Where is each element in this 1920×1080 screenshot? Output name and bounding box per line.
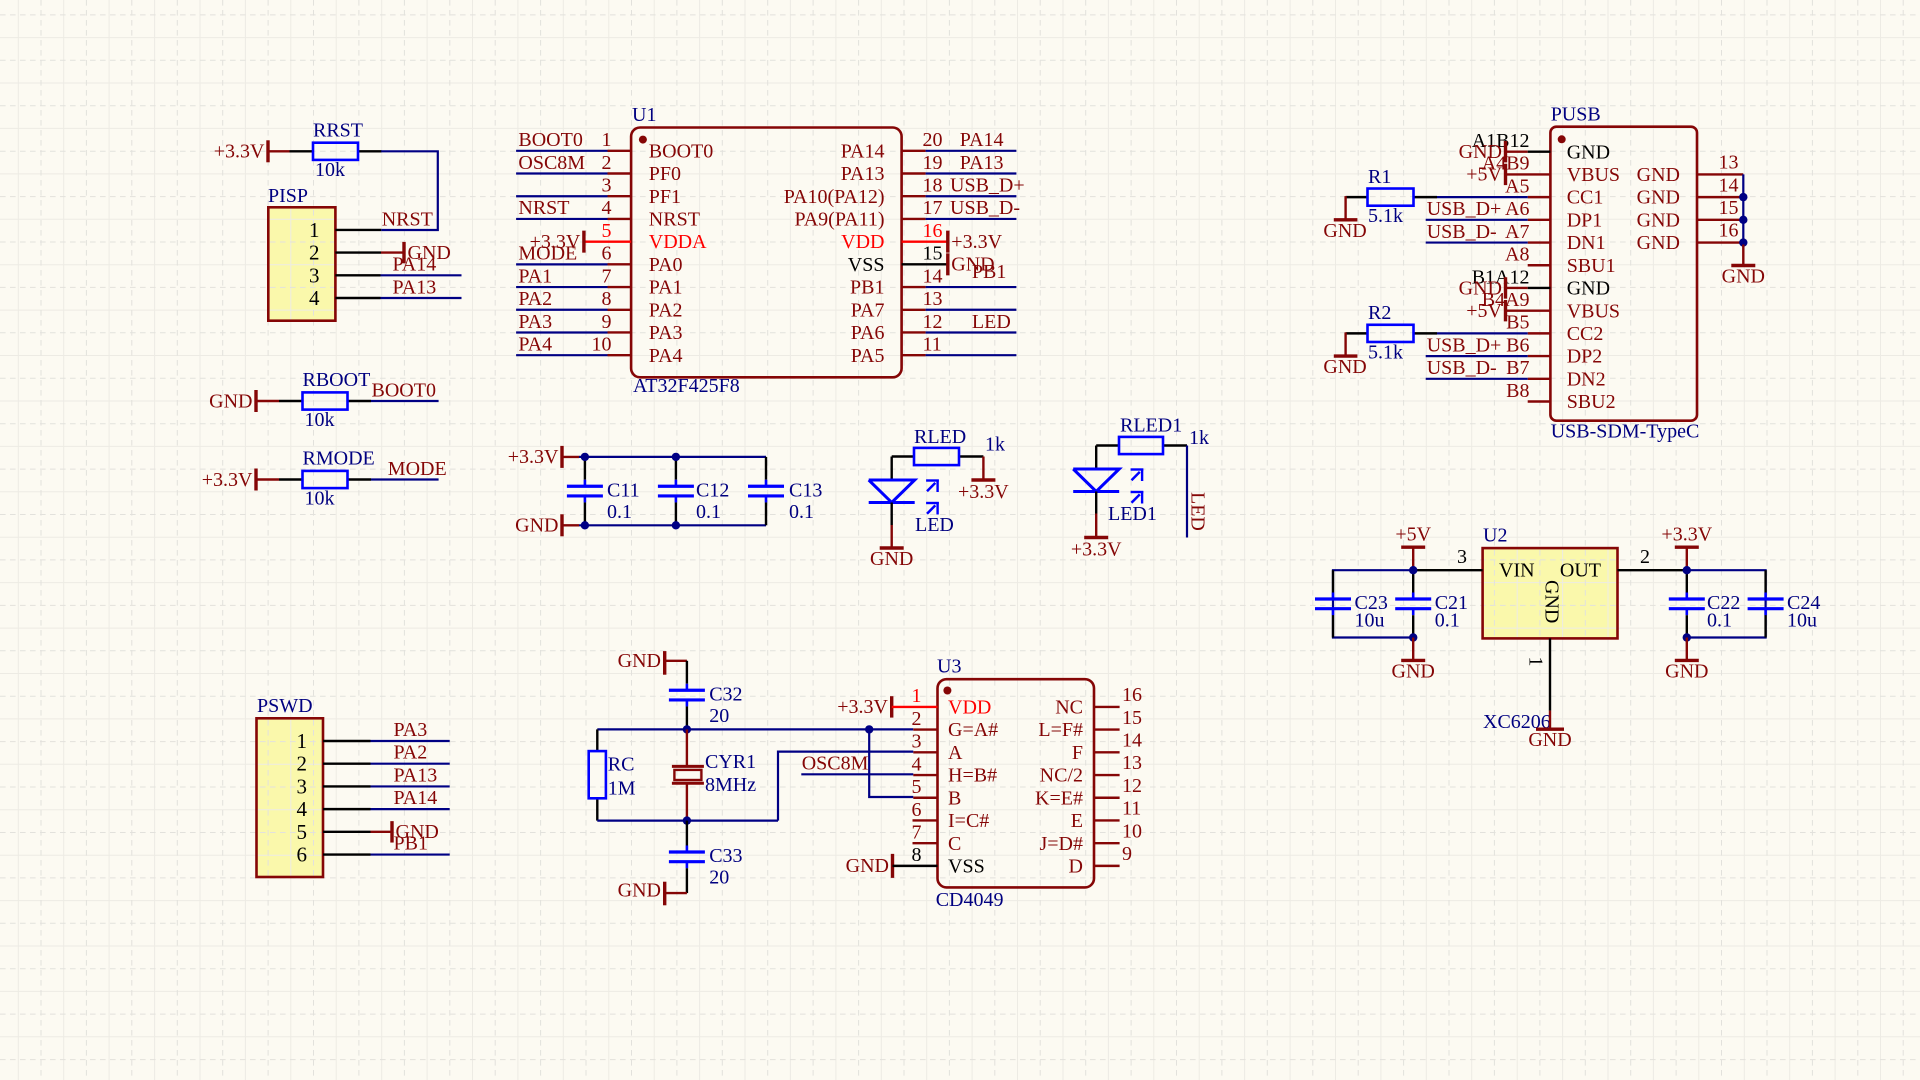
wire at U1 pin 13 [926, 309, 1017, 311]
svg-text:BOOT0: BOOT0 [649, 140, 713, 162]
connector PSWD [257, 695, 324, 877]
svg-text:4: 4 [297, 797, 308, 821]
svg-text:PA1: PA1 [649, 277, 683, 299]
U3 left pin names [948, 697, 998, 878]
svg-text:PB1: PB1 [972, 261, 1006, 283]
svg-text:MODE: MODE [518, 243, 577, 265]
svg-text:18: 18 [923, 175, 943, 197]
svg-text:1k: 1k [1189, 427, 1209, 449]
svg-text:B7: B7 [1506, 357, 1529, 379]
svg-text:1: 1 [309, 218, 320, 242]
wire at U1 pin 3 [516, 195, 607, 197]
wire OSC8M net (U3 pin4) [801, 773, 913, 775]
power +5V at PUSB pin B4A9 [1466, 300, 1505, 322]
svg-text:0.1: 0.1 [696, 501, 721, 523]
svg-text:20: 20 [923, 129, 943, 151]
svg-text:B5: B5 [1506, 312, 1529, 334]
svg-text:PSWD: PSWD [257, 695, 313, 717]
chip U1 AT32F425F8 body [631, 104, 902, 397]
svg-text:GND: GND [1392, 660, 1435, 682]
PSWD pin 2 lead [323, 763, 371, 765]
svg-text:PA2: PA2 [649, 299, 683, 321]
svg-text:VBUS: VBUS [1567, 164, 1620, 186]
svg-text:VDD: VDD [841, 231, 884, 253]
svg-text:GND: GND [1459, 277, 1502, 299]
svg-text:C32: C32 [709, 683, 742, 705]
U3 right pin numbers 9-16 [1122, 684, 1142, 865]
svg-text:10k: 10k [305, 487, 335, 509]
power +3.3V (U2 OUT) [1661, 524, 1712, 571]
svg-text:PA2: PA2 [518, 288, 552, 310]
PUSB right pin numbers 13-16 [1719, 152, 1739, 242]
U2 pin names VIN OUT GND [1499, 560, 1601, 624]
U1 pin 12 lead [902, 331, 926, 333]
svg-text:PA4: PA4 [649, 345, 683, 367]
ground GND (C32) [618, 650, 687, 675]
svg-text:PA1: PA1 [518, 265, 552, 287]
U1 pin 20 lead [902, 150, 926, 152]
svg-text:0.1: 0.1 [789, 501, 814, 523]
PUSB pin A8 stub [1528, 264, 1551, 266]
ground GND (R2) [1323, 332, 1366, 378]
svg-text:PISP: PISP [268, 185, 308, 207]
svg-text:AT32F425F8: AT32F425F8 [633, 375, 740, 397]
U3 right pin stubs 9-16 [1094, 707, 1120, 866]
wire at U1 pin 12 [926, 331, 1017, 333]
svg-text:12: 12 [923, 311, 943, 333]
ground GND at U3 pin 8 [846, 854, 893, 878]
svg-text:5.1k: 5.1k [1368, 341, 1403, 363]
svg-text:0.1: 0.1 [607, 501, 632, 523]
svg-text:A5: A5 [1505, 175, 1529, 197]
capacitor C22 0.1 [1669, 570, 1741, 637]
ground GND (RBOOT) [209, 390, 279, 412]
svg-text:5: 5 [912, 776, 922, 798]
power +5V (U2 VIN) [1395, 524, 1431, 571]
svg-text:GND: GND [1541, 580, 1563, 623]
wire R1 to PUSB CC1 [1414, 196, 1528, 198]
svg-text:6: 6 [297, 843, 308, 867]
U1 pin 5 VDDA (red) [584, 240, 631, 242]
U1 pin 19 lead [902, 172, 926, 174]
svg-text:DP2: DP2 [1567, 346, 1603, 368]
svg-text:BOOT0: BOOT0 [372, 379, 436, 401]
wire at U1 pin 17 [926, 218, 1017, 220]
svg-text:NC/2: NC/2 [1040, 765, 1083, 787]
U1 pin 2 lead [608, 172, 632, 174]
svg-text:2: 2 [602, 152, 612, 174]
svg-text:19: 19 [923, 152, 943, 174]
junction C22 bottom / GND [1683, 633, 1691, 641]
svg-text:NRST: NRST [518, 197, 569, 219]
wire at U1 pin 20 [926, 150, 1017, 152]
svg-text:1: 1 [297, 729, 308, 753]
svg-text:GND: GND [1528, 729, 1571, 751]
wire RLED1 to LED1 [1095, 446, 1097, 470]
svg-text:PA13: PA13 [394, 764, 438, 786]
regulator U2 XC6206 body [1483, 525, 1618, 733]
svg-text:PA3: PA3 [649, 322, 683, 344]
svg-text:2: 2 [297, 752, 308, 776]
svg-text:GND: GND [846, 855, 889, 877]
svg-text:R2: R2 [1368, 302, 1391, 324]
svg-text:RLED: RLED [914, 426, 966, 448]
PSWD pin numbers 1-6 [297, 729, 308, 867]
svg-text:GND: GND [1323, 220, 1366, 242]
ground GND at PISP pin 2 [381, 242, 451, 264]
svg-text:8: 8 [912, 844, 922, 866]
svg-text:DN2: DN2 [1567, 368, 1606, 390]
svg-text:10: 10 [592, 333, 612, 355]
wire PA14 net (PSWD pin 4) [371, 808, 450, 810]
svg-text:USB_D+: USB_D+ [950, 175, 1025, 197]
svg-text:RLED1: RLED1 [1120, 415, 1182, 437]
svg-text:CYR1: CYR1 [705, 751, 756, 773]
svg-text:GND: GND [1637, 232, 1680, 254]
svg-text:+3.3V: +3.3V [958, 481, 1009, 503]
svg-text:B: B [948, 787, 961, 809]
connector PUSB USB-SDM-TypeC body [1550, 104, 1699, 443]
svg-text:VIN: VIN [1499, 560, 1535, 582]
svg-text:PA4: PA4 [518, 333, 552, 355]
PUSB pin A4B9 lead [1506, 173, 1551, 175]
svg-text:GND: GND [618, 880, 661, 902]
svg-text:J=D#: J=D# [1039, 833, 1083, 855]
junction C12 / +3.3V rail [672, 453, 680, 461]
svg-text:16: 16 [923, 220, 943, 242]
svg-text:PB1: PB1 [394, 833, 428, 855]
svg-text:CC2: CC2 [1567, 323, 1604, 345]
PUSB pin B7 lead [1528, 378, 1551, 380]
wire PA13 net (PISP pin4) [381, 297, 462, 299]
svg-text:OSC8M: OSC8M [518, 152, 585, 174]
PISP pin 1 lead [335, 229, 381, 231]
svg-text:PA13: PA13 [841, 163, 885, 185]
PUSB pins 13-16 leads [1697, 174, 1743, 242]
PUSB pin A6 lead [1528, 219, 1551, 221]
junction C12 / GND rail [672, 521, 680, 529]
svg-text:17: 17 [923, 197, 943, 219]
svg-text:B6: B6 [1506, 334, 1529, 356]
wire at U1 pin 2 [516, 172, 607, 174]
U2 pin 2 lead [1618, 546, 1687, 570]
svg-text:RRST: RRST [313, 120, 363, 142]
PUSB pin designators [1472, 130, 1530, 402]
ground GND at PSWD pin 5 [371, 821, 439, 843]
PUSB pin A7 lead [1528, 241, 1551, 243]
U1 pin 8 lead [608, 309, 632, 311]
svg-text:16: 16 [1122, 684, 1142, 706]
svg-text:4: 4 [912, 753, 922, 775]
svg-text:1: 1 [1525, 657, 1547, 667]
svg-text:PA13: PA13 [960, 152, 1004, 174]
svg-text:4: 4 [309, 286, 320, 310]
svg-text:GND: GND [1722, 266, 1765, 288]
svg-text:1M: 1M [608, 777, 636, 799]
svg-text:VSS: VSS [948, 855, 985, 877]
PISP pin 2 lead [335, 251, 381, 253]
power +3.3V at U3 pin 1 [837, 696, 891, 718]
resistor RC 1M (vertical) [589, 729, 636, 820]
capacitor C21 0.1 [1395, 570, 1468, 637]
PSWD pin 3 lead [323, 785, 371, 787]
svg-text:C12: C12 [696, 479, 729, 501]
PUSB right pin names (GND x4) [1637, 164, 1680, 254]
U1 left pin numbers 1-10 [592, 129, 612, 355]
svg-text:C: C [948, 833, 961, 855]
wire at U1 pin 10 [516, 354, 607, 356]
PSWD pin 4 lead [323, 808, 371, 810]
svg-text:RBOOT: RBOOT [303, 369, 371, 391]
resistor RBOOT 10k [279, 369, 371, 431]
PUSB pin A5 lead [1528, 196, 1551, 198]
U1 pin 1 lead [608, 150, 632, 152]
svg-text:PA13: PA13 [393, 276, 437, 298]
svg-text:PA0: PA0 [649, 254, 683, 276]
svg-text:GND: GND [1567, 141, 1610, 163]
svg-text:OSC8M: OSC8M [802, 753, 869, 775]
wire BOOT0 net (RBOOT) [371, 400, 439, 402]
PSWD pin 1 lead [323, 740, 371, 742]
svg-text:RMODE: RMODE [303, 448, 375, 470]
svg-text:3: 3 [309, 263, 320, 287]
wire PB1 net (PSWD pin 6) [371, 853, 450, 855]
svg-text:NC: NC [1055, 697, 1083, 719]
svg-text:7: 7 [912, 821, 922, 843]
svg-text:VDD: VDD [948, 697, 991, 719]
svg-text:PA3: PA3 [394, 719, 428, 741]
U1 pin 16 VDD (red) [902, 240, 948, 242]
svg-text:A7: A7 [1505, 221, 1529, 243]
svg-text:I=C#: I=C# [948, 810, 989, 832]
wire U3 pin5 connection [869, 729, 913, 797]
PSWD pin 6 lead [323, 853, 371, 855]
svg-text:20: 20 [709, 705, 729, 727]
svg-text:10k: 10k [315, 159, 345, 181]
svg-text:10u: 10u [1355, 610, 1385, 632]
PISP pin numbers 1-4 [309, 218, 320, 310]
capacitor C33 20 [669, 821, 743, 894]
svg-text:3: 3 [912, 731, 922, 753]
svg-text:U1: U1 [632, 104, 656, 126]
svg-text:LED: LED [972, 311, 1011, 333]
U1 pin 17 lead [902, 218, 926, 220]
wire at U1 pin 14 [926, 286, 1017, 288]
U3 pin 7 stub [913, 842, 938, 844]
svg-text:USB-SDM-TypeC: USB-SDM-TypeC [1551, 420, 1700, 442]
svg-text:+3.3V: +3.3V [508, 446, 559, 468]
svg-text:PA6: PA6 [851, 322, 885, 344]
PUSB left pin names [1567, 141, 1620, 413]
wire PA13 net (PSWD pin 3) [371, 785, 450, 787]
svg-text:A8: A8 [1505, 244, 1529, 266]
svg-text:E: E [1071, 810, 1083, 832]
svg-text:PF0: PF0 [649, 163, 681, 185]
svg-text:20: 20 [709, 867, 729, 889]
resistor RRST 10k [290, 120, 382, 182]
LED diode LED [869, 480, 954, 537]
svg-text:9: 9 [1122, 843, 1132, 865]
svg-text:+3.3V: +3.3V [951, 231, 1002, 253]
svg-text:PA9(PA11): PA9(PA11) [794, 209, 884, 231]
svg-text:USB_D+: USB_D+ [1427, 334, 1502, 356]
svg-text:8MHz: 8MHz [705, 774, 756, 796]
svg-text:GND: GND [1637, 209, 1680, 231]
wire PA14 net (PISP pin3) [381, 274, 462, 276]
svg-text:PA14: PA14 [841, 140, 885, 162]
wire PA2 net (PSWD pin 2) [371, 763, 450, 765]
svg-text:10k: 10k [305, 409, 335, 431]
svg-text:GND: GND [1459, 141, 1502, 163]
PUSB pin A1B12 lead (black) [1528, 150, 1551, 152]
svg-text:12: 12 [1122, 775, 1142, 797]
power +5V at PUSB pin A4B9 [1466, 164, 1505, 186]
wire PA3 net (PSWD pin 1) [371, 740, 450, 742]
PISP pin 4 lead [335, 297, 380, 299]
crystal CYR1 8MHz [672, 729, 756, 820]
svg-text:NRST: NRST [649, 209, 700, 231]
U3 pin 4 lead [913, 774, 937, 776]
svg-text:SBU1: SBU1 [1567, 255, 1616, 277]
svg-text:5: 5 [297, 820, 308, 844]
U1 pin 3 lead [608, 195, 632, 197]
U1 pin 18 lead [902, 195, 926, 197]
wire at U1 pin 8 [516, 309, 607, 311]
svg-text:GND: GND [618, 650, 661, 672]
PUSB pin B5 lead [1528, 332, 1551, 334]
svg-text:14: 14 [1719, 174, 1739, 196]
U3 pin 6 stub [913, 819, 938, 821]
wire USB_D+ (A side) [1426, 219, 1528, 221]
svg-text:+5V: +5V [1466, 300, 1502, 322]
svg-text:USB_D-: USB_D- [1427, 221, 1497, 243]
wire at U1 pin 6 [516, 263, 607, 265]
wire VIN rail to C23 [1333, 570, 1413, 637]
resistor R1 5.1k [1346, 166, 1414, 227]
junction U2 OUT / C22 top [1683, 566, 1691, 574]
svg-text:+3.3V: +3.3V [837, 696, 888, 718]
wire U3 pin3 connection [778, 752, 913, 821]
capacitor C13 0.1 [748, 457, 822, 525]
wire LED net (RLED1 right) [1186, 446, 1188, 538]
svg-text:15: 15 [1122, 707, 1142, 729]
svg-text:16: 16 [1719, 220, 1739, 242]
svg-text:2: 2 [912, 708, 922, 730]
resistor RLED 1k [892, 426, 1005, 465]
U1 pin 4 lead [608, 218, 632, 220]
resistor RMODE 10k [279, 448, 375, 510]
svg-text:10u: 10u [1787, 610, 1817, 632]
wire GND rail [579, 524, 766, 526]
junction GND bus / pin 16 [1739, 238, 1747, 246]
U3 pin 8 VSS lead [893, 865, 938, 867]
chip U3 CD4049 body [936, 656, 1094, 912]
svg-text:SBU2: SBU2 [1567, 391, 1616, 413]
junction dot top rail / U3 pin2 [865, 725, 873, 733]
U1 pin 15 VSS lead [902, 263, 948, 265]
svg-text:14: 14 [1122, 730, 1142, 752]
U1 right pin numbers 11-20 [923, 129, 943, 355]
wire at U1 pin 19 [926, 172, 1017, 174]
svg-text:11: 11 [923, 333, 942, 355]
svg-text:B8: B8 [1506, 380, 1529, 402]
power +3.3V (RRST pull-up) [214, 140, 290, 162]
svg-text:3: 3 [1457, 546, 1467, 568]
svg-text:LED: LED [1187, 492, 1209, 531]
ground GND at PUSB pin A1B12 [1459, 141, 1528, 163]
U1 pin 13 lead [902, 309, 926, 311]
svg-text:+3.3V: +3.3V [1071, 539, 1122, 561]
svg-text:11: 11 [1122, 798, 1141, 820]
U1 pin 7 lead [608, 286, 632, 288]
junction C21 bottom / GND [1409, 633, 1417, 641]
wire USB_D- (B side) [1426, 378, 1528, 380]
U3 pin 5 lead [913, 797, 937, 799]
svg-text:H=B#: H=B# [948, 765, 997, 787]
wire OSC top rail [597, 728, 869, 730]
svg-text:LED: LED [915, 514, 954, 536]
wire MODE net (RMODE) [371, 478, 439, 480]
svg-text:PUSB: PUSB [1551, 104, 1601, 126]
svg-text:7: 7 [602, 265, 612, 287]
power +3.3V (RMODE) [202, 469, 279, 491]
svg-text:GND: GND [515, 515, 558, 537]
power +3.3V (RLED) [958, 457, 1009, 504]
wire +3.3V rail [579, 456, 766, 458]
PUSB pin B8 stub [1528, 400, 1551, 402]
wire at U1 pin 9 [516, 331, 607, 333]
svg-text:C11: C11 [607, 479, 640, 501]
wire R2 to PUSB CC2 [1414, 332, 1528, 334]
PUSB pin B1A12 lead (black) [1528, 287, 1551, 289]
wire RLED to LED [891, 457, 893, 481]
svg-text:C13: C13 [789, 479, 822, 501]
capacitor C12 0.1 [658, 457, 729, 525]
resistor R2 5.1k [1346, 302, 1414, 363]
svg-text:PB1: PB1 [850, 277, 884, 299]
power +3.3V (LED1) [1071, 514, 1122, 561]
svg-text:PA14: PA14 [394, 787, 438, 809]
svg-text:L=F#: L=F# [1038, 719, 1083, 741]
svg-text:1k: 1k [985, 433, 1005, 455]
svg-text:PA2: PA2 [394, 742, 428, 764]
power +3.3V (decoupling rail) [508, 446, 579, 468]
svg-text:A: A [948, 742, 963, 764]
junction C11 / GND rail [581, 521, 589, 529]
svg-text:U2: U2 [1483, 525, 1507, 547]
svg-text:3: 3 [602, 175, 612, 197]
U1 pin 9 lead [608, 331, 632, 333]
svg-text:PF1: PF1 [649, 186, 681, 208]
junction dot C33/bottom rail [683, 816, 691, 824]
wire at U1 pin 18 [926, 195, 1017, 197]
svg-text:15: 15 [923, 243, 943, 265]
ground GND at PUSB pin B1A12 [1459, 277, 1528, 299]
svg-text:USB_D+: USB_D+ [1427, 198, 1502, 220]
svg-text:CC1: CC1 [1567, 187, 1604, 209]
wire at U1 pin 1 [516, 150, 607, 152]
ground GND at U1 pin 15 [948, 253, 995, 275]
svg-text:+3.3V: +3.3V [1661, 524, 1712, 546]
svg-text:+5V: +5V [1466, 164, 1502, 186]
U1 pin 11 lead [902, 354, 926, 356]
PUSB pin B4A9 lead [1506, 309, 1551, 311]
U1 pin 10 lead [608, 354, 632, 356]
svg-text:1: 1 [602, 129, 612, 151]
svg-text:0.1: 0.1 [1707, 610, 1732, 632]
junction dot C32/top rail [683, 725, 691, 733]
ground GND (U2 input) [1392, 638, 1435, 683]
